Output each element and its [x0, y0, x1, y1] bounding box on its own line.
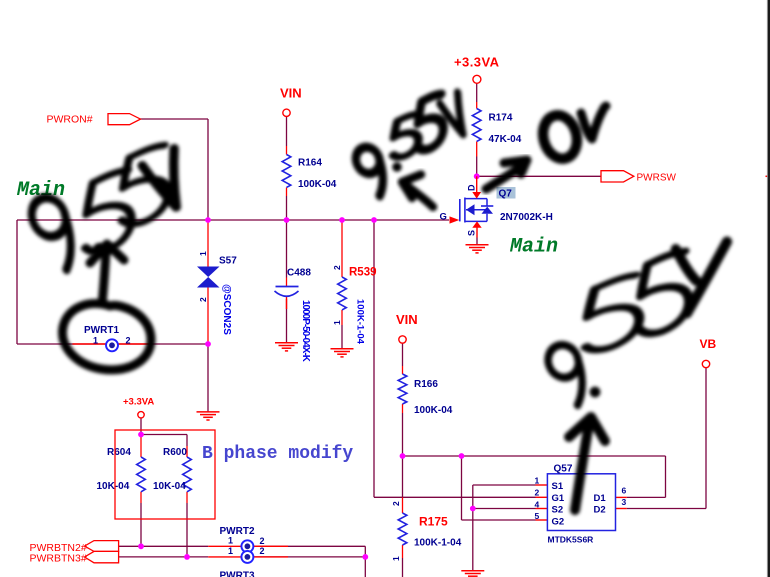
wire bottom PWRT1 row: [17, 343, 208, 345]
pin stub R166 top: [402, 366, 404, 374]
svg-text:PWRT3: PWRT3: [220, 571, 255, 577]
junction main/R164: [284, 217, 290, 223]
svg-text:R175: R175: [419, 515, 448, 529]
wire row1 corner down: [364, 546, 366, 557]
diode S57 (bidirectional TVS): [197, 251, 237, 335]
resistor R539: [332, 265, 377, 345]
wire row2 left: [119, 556, 209, 558]
svg-text:PWRT1: PWRT1: [84, 325, 119, 336]
junction R600/row2: [184, 554, 190, 560]
wire D1 corner vertical: [665, 456, 667, 497]
Q57 pin names: [552, 481, 607, 527]
wire D1 horizontal: [627, 496, 666, 498]
power terminal VIN (top): [280, 86, 302, 117]
pin stub C488 bottom: [286, 296, 288, 309]
ground Q57 S1/S2: [461, 571, 484, 576]
svg-text:2: 2: [260, 536, 265, 546]
svg-text:S57: S57: [219, 256, 237, 267]
svg-text:PWRBTN3#: PWRBTN3#: [30, 552, 87, 564]
svg-text:S2: S2: [552, 505, 564, 516]
wire R164 to main: [286, 196, 288, 220]
svg-text:VB: VB: [700, 337, 717, 351]
Q7 source pin with arrow: [467, 221, 482, 237]
ground Q7 source: [466, 245, 489, 253]
resistor R164: [282, 155, 337, 191]
wire PWRT3 net down off-page: [364, 557, 366, 577]
Q57 pin numbers: [535, 476, 627, 521]
resistor R166: [398, 374, 453, 416]
pin stub PWRT2 row2 pin2: [253, 556, 288, 558]
svg-text:1: 1: [535, 476, 540, 486]
wire R166 to junction: [402, 413, 404, 456]
svg-text:@SCON2S: @SCON2S: [221, 284, 232, 335]
pin stub Q57 pin1 S1: [536, 484, 548, 486]
wire VIN1 down to R164: [286, 117, 288, 147]
wire stub right edge PWRSW net: [766, 175, 770, 177]
pin stub R174 top: [476, 102, 478, 109]
wire G2 branch vertical: [461, 456, 463, 520]
svg-text:2: 2: [126, 336, 131, 346]
svg-text:1: 1: [198, 251, 208, 256]
svg-text:100K-04: 100K-04: [414, 405, 453, 416]
wire S2 horizontal: [473, 508, 536, 510]
wire PWRSW horizontal: [477, 175, 601, 177]
junction Q7 drain / PWRSW: [474, 173, 480, 179]
pin stub Q57 pin2 G1: [536, 496, 548, 498]
junction main/x374: [371, 217, 377, 223]
power terminal +3.3VA (top): [454, 55, 500, 84]
wire VB vertical: [705, 368, 707, 509]
svg-text:D: D: [467, 184, 477, 191]
pin stub R166 bottom: [402, 404, 404, 413]
svg-text:B phase modify: B phase modify: [202, 444, 353, 464]
svg-text:R604: R604: [107, 447, 131, 458]
svg-text:2: 2: [391, 501, 401, 506]
wire R175 bottom off-page: [402, 558, 404, 577]
port flag PWRBTN2#: [30, 541, 119, 554]
connector PWRT1: [84, 325, 131, 351]
pin stub PWRT1 pin1: [73, 343, 107, 345]
ground S57 net: [197, 412, 220, 420]
pin stub R539 top: [341, 220, 343, 277]
pin stub R164 top: [286, 146, 288, 155]
ground R539: [331, 349, 354, 357]
svg-text:Q7: Q7: [499, 189, 513, 200]
pin stub R604 bottom: [140, 492, 142, 503]
pin stub R175 bottom: [402, 545, 404, 558]
pin stub R604 top: [140, 436, 142, 457]
pin stub Q57 pin6 D1: [616, 496, 627, 498]
svg-text:G2: G2: [552, 516, 565, 527]
svg-text:D2: D2: [594, 505, 606, 516]
pin stub C488 top: [286, 278, 288, 287]
power terminal VB: [700, 337, 717, 368]
handwritten arrow (toward 0v): [486, 160, 527, 189]
wire R539 to ground: [341, 325, 343, 349]
wire R604 down to row1: [140, 503, 142, 546]
port flag PWRON#: [47, 114, 141, 126]
connector PWRT2: [220, 526, 265, 563]
note Main (left): [16, 179, 65, 202]
svg-text:R539: R539: [349, 267, 377, 279]
Q7 drain pin with arrow: [467, 176, 482, 198]
handwritten 9.55V (middle): [352, 93, 472, 199]
wire D2 horizontal: [627, 508, 706, 510]
annotation box around R604/R600: [115, 430, 215, 519]
wire VIN2 down: [402, 343, 404, 366]
pin stub R600 bottom: [186, 492, 188, 503]
svg-text:VIN: VIN: [396, 312, 418, 327]
capacitor C488: [275, 268, 312, 362]
wire VIN2 net to D1 horizontal: [403, 455, 666, 457]
pin stub Q57 pin3 D2: [616, 508, 627, 510]
wire G2 horizontal: [462, 519, 536, 521]
connector PWRT3 (clipped at bottom): [220, 571, 255, 577]
wire x374 vertical long: [373, 220, 375, 497]
svg-text:4: 4: [535, 499, 540, 509]
port flag PWRSW: [601, 171, 677, 184]
resistor R175: [391, 501, 462, 561]
wire C488 to ground: [286, 299, 288, 343]
svg-text:C488: C488: [287, 268, 311, 279]
junction +3.3VA box: [138, 432, 144, 438]
svg-text:Main: Main: [509, 236, 558, 259]
svg-text:100K-04: 100K-04: [298, 179, 337, 190]
handwritten arrow (middle, pointing NW): [402, 175, 433, 208]
Q7 reference label (highlighted): [497, 187, 516, 200]
svg-text:2: 2: [535, 488, 540, 498]
svg-text:+3.3VA: +3.3VA: [454, 55, 500, 70]
wire box top branch: [141, 434, 187, 436]
svg-text:PWRSW: PWRSW: [637, 173, 677, 184]
resistor R600: [153, 447, 191, 492]
svg-text:D1: D1: [594, 493, 607, 504]
pin stub R164 bottom: [286, 188, 288, 197]
wire S1 horizontal: [473, 484, 536, 486]
svg-text:VIN: VIN: [280, 86, 302, 101]
svg-text:1: 1: [391, 556, 401, 561]
wire S57 to ground: [207, 344, 209, 412]
ground C488: [275, 343, 298, 351]
wire left vertical: [16, 220, 18, 344]
svg-text:1000P-50-04X-K: 1000P-50-04X-K: [300, 300, 311, 362]
svg-text:1: 1: [332, 320, 342, 325]
pin stub PWRT2 pin1 left: [208, 545, 241, 547]
svg-text:1: 1: [93, 336, 98, 346]
sheet border right edge: [767, 0, 770, 577]
svg-text:2: 2: [198, 297, 208, 302]
junction R166/R175 net: [400, 453, 406, 459]
svg-text:10K-04: 10K-04: [153, 481, 186, 492]
handwritten arrow (toward 9.55Y): [569, 417, 605, 510]
svg-text:R166: R166: [414, 379, 438, 390]
pin stub PWRT2 row2 pin1: [208, 556, 241, 558]
wire R600 branch down: [186, 435, 188, 447]
port flag PWRBTN3#: [30, 551, 119, 564]
wire +3.3VA down: [476, 83, 478, 102]
svg-text:PWRON#: PWRON#: [47, 114, 93, 126]
transistor Q7 2N7002K-H: [460, 198, 553, 223]
pin stub S57 pin2: [207, 288, 209, 345]
pin stub R174 bottom: [476, 142, 478, 157]
pin stub S57 pin1: [207, 220, 209, 267]
wire R600 down to row2: [186, 503, 188, 557]
pin stub PWRT2 pin2 right: [253, 545, 288, 547]
wire PWRON# to corner: [140, 118, 208, 120]
pin stub Q57 pin5 G2: [536, 519, 548, 521]
note Main (right): [509, 236, 558, 259]
handwritten 0v annotation: [538, 106, 606, 163]
junction G2 branch: [459, 453, 465, 459]
handwritten 9.55Y (bottom right): [543, 242, 727, 409]
svg-text:PWRT2: PWRT2: [220, 526, 255, 537]
junction row1/row2 join: [362, 554, 368, 560]
wire row2 right: [253, 556, 365, 558]
wire R174 to junction: [476, 157, 478, 177]
svg-text:100K-1-04: 100K-1-04: [355, 299, 366, 345]
wire +3.3VA box down: [140, 418, 142, 434]
svg-text:3: 3: [622, 497, 627, 507]
svg-text:2: 2: [260, 546, 265, 556]
svg-text:6: 6: [622, 485, 627, 495]
pin stub Q57 pin4 S2: [536, 508, 548, 510]
note B phase modify: [202, 444, 353, 464]
pin stub PWRT1 pin2: [118, 343, 152, 345]
svg-text:100K-1-04: 100K-1-04: [414, 538, 462, 549]
handwritten 9.55V (top left): [26, 144, 192, 274]
svg-text:10K-04: 10K-04: [97, 481, 130, 492]
IC Q57 MTDK5S6R box: [547, 464, 615, 545]
svg-text:2N7002K-H: 2N7002K-H: [500, 212, 553, 223]
resistor R174: [472, 109, 521, 146]
svg-text:2: 2: [332, 265, 342, 270]
wire main down to C488: [286, 220, 288, 278]
svg-text:1: 1: [228, 546, 233, 556]
wire row1 right: [253, 545, 365, 547]
junction PWRT1/S57: [205, 341, 211, 347]
wire Q7 source to ground: [476, 238, 478, 245]
svg-text:47K-04: 47K-04: [489, 134, 522, 145]
junction main/R539: [339, 217, 345, 223]
pin stub R175 top: [402, 497, 404, 513]
svg-text:1: 1: [228, 536, 233, 546]
junction main/PWRON#: [205, 217, 211, 223]
wire junction down to R175 tee: [402, 456, 404, 497]
resistor R604: [97, 447, 146, 492]
svg-text:5: 5: [535, 511, 540, 521]
svg-text:G: G: [440, 212, 447, 223]
svg-text:Q57: Q57: [554, 464, 573, 475]
wire PWRON# vertical down: [207, 119, 209, 220]
wire y497 horizontal to Q57 G1: [374, 496, 536, 498]
svg-text:S1: S1: [552, 481, 564, 492]
wire row1 left: [119, 545, 209, 547]
wire main horizontal net y=220: [17, 219, 449, 221]
pin stub R539 bottom: [341, 310, 343, 325]
power terminal VIN (middle): [396, 312, 418, 343]
svg-text:R164: R164: [298, 158, 322, 169]
svg-text:MTDK5S6R: MTDK5S6R: [548, 535, 594, 545]
svg-text:R600: R600: [163, 447, 187, 458]
svg-text:S: S: [467, 230, 477, 236]
junction R604/row1: [138, 543, 144, 549]
Q7 gate pin arrow: [440, 212, 460, 224]
power terminal +3.3VA (box): [123, 397, 154, 418]
pin stub R600 top: [186, 446, 188, 457]
svg-text:+3.3VA: +3.3VA: [123, 397, 154, 408]
wire S1-S2 ground vertical: [472, 485, 474, 571]
svg-text:G1: G1: [552, 493, 565, 504]
handwritten arrow + circle around PWRT1: [62, 244, 151, 370]
junction S1/S2: [470, 506, 476, 512]
svg-text:R174: R174: [489, 113, 513, 124]
